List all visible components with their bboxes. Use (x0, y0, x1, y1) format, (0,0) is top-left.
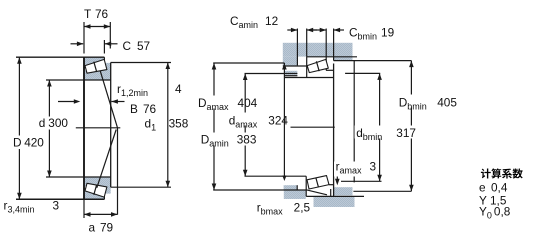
pressure line from bottom roller to apex a (97, 130, 116, 188)
svg-text:d: d (39, 116, 46, 130)
bearing back (left) face (83, 57, 85, 200)
housing recess sliver right of cup (334, 57, 353, 61)
housing shoulder block (283, 57, 298, 66)
tapered roller top (85, 59, 107, 73)
bore bottom line + d extension (46, 176, 111, 178)
label r amax 3 (334, 162, 376, 177)
housing spigot line (damax ext top) (245, 73, 298, 75)
cup bottom raceway line (83, 189, 104, 196)
cage line through bottom roller (94, 185, 97, 195)
svg-text:76: 76 (143, 102, 157, 116)
shaft spigot strip bottom (d bmin side) (284, 185, 298, 190)
dimension T: extension lines (83, 22, 85, 54)
calculation-factors table heading 计算系数 (481, 168, 523, 178)
pressure line from top roller to apex a (100, 71, 117, 128)
label d 300 (38, 117, 71, 130)
shaft section block bottom-left (284, 190, 306, 199)
outer ring (cup) bottom section (84, 189, 104, 199)
dimension Dbmin: line with arrows (410, 61, 412, 192)
cup bottom front face (right figure) (330, 189, 332, 196)
dimension dbmin: line with arrows (379, 73, 381, 181)
bearing centre axis line (76, 127, 121, 129)
cage line through top roller (94, 62, 97, 72)
bearing bottom edge (right figure) (306, 195, 364, 197)
bearing top edge + D extension line (16, 56, 104, 58)
svg-text:D: D (13, 136, 22, 150)
label Dbmin 405 (397, 95, 459, 108)
svg-text:B: B (130, 102, 138, 116)
cup top front face (103, 57, 105, 61)
label Damax 404 (196, 96, 256, 109)
shaft line bottom (Damax ext bottom) (213, 189, 306, 191)
cage line bottom (right figure) (316, 178, 319, 187)
housing spigot strip (Da min) (284, 71, 297, 75)
svg-text:e: e (479, 181, 486, 195)
roller bottom (right figure) (307, 176, 329, 189)
cup bottom raceway (right figure) (306, 190, 327, 195)
axis line (right figure) (291, 126, 335, 128)
cup top raceway (right figure) (307, 60, 327, 67)
cup top raceway line (83, 61, 104, 68)
dimension d1: dimension line with arrows (167, 63, 169, 188)
housing shoulder bore line (283, 65, 307, 67)
label damax 324 (227, 113, 287, 126)
label D 420 (11, 136, 45, 150)
dimension C: left arrow (71, 43, 84, 45)
cone front face full line (right figure) (333, 64, 335, 198)
bearing bottom back face (right figure) (305, 176, 307, 196)
svg-text:57: 57 (137, 39, 150, 53)
label Damin 383 (199, 133, 255, 146)
rib bottom edge line (right figure) (329, 184, 334, 186)
shaft line bottom right (Dbmin ext bottom) (353, 190, 411, 192)
outer ring (cup) top section (84, 58, 104, 68)
tapered roller bottom (85, 183, 107, 197)
dimension a: left extension line (83, 199, 85, 218)
dimension C: extension line (103, 40, 105, 54)
seat line bottom (right figure) (245, 175, 307, 177)
svg-text:T: T (84, 7, 91, 21)
svg-text:79: 79 (100, 221, 113, 235)
dimension damax: line with arrows (244, 74, 246, 177)
shaft step vertical bottom (296, 185, 298, 190)
dimension a: dimension line with arrows (84, 213, 118, 215)
ramax leader arrow (336, 177, 338, 181)
roller top (right figure) (307, 59, 328, 72)
svg-text:420: 420 (24, 136, 44, 150)
dimension d: dimension line with arrows (48, 80, 50, 177)
inner ring (cone) top section (84, 63, 111, 80)
cone front (right) face (110, 63, 112, 188)
housing shoulder face vertical (296, 29, 298, 66)
dimension Damax: line with arrows (213, 63, 215, 190)
dimension T: dimension line with arrows (84, 26, 110, 28)
bearing bottom edge + D extension line (16, 198, 104, 200)
svg-text:a: a (89, 221, 96, 235)
housing bore line (307, 56, 357, 58)
cone large-end top line + d1 extension (111, 62, 171, 64)
spacer diameter line bottom (dbmin ext) (341, 180, 382, 182)
dimension Cbmin: arrows (313, 29, 327, 31)
shaft abutment block bottom-right (314, 197, 355, 207)
cup front face (right figure) (325, 57, 327, 71)
bearing back face (right figure) (306, 57, 308, 78)
svg-text:Y00,8: Y00,8 (479, 205, 511, 221)
dimension Camin: arrows (287, 29, 297, 31)
rib top edge (right figure) (326, 69, 334, 71)
cage line top (right figure) (316, 61, 319, 71)
bore top line + d extension (46, 79, 111, 81)
dimension C: right arrow (105, 43, 118, 45)
svg-text:300: 300 (48, 116, 68, 130)
housing spigot strip bottom edge (284, 75, 297, 77)
dimension Camin: right extension line / cup back face ext (306, 29, 308, 57)
cone large-end bottom line + d1 extension (111, 186, 171, 188)
spacer face extension vertical (353, 61, 355, 183)
spacer strip right (above shaft line) (334, 187, 353, 195)
dimension B: right arrow (111, 101, 124, 103)
dimension D: dimension line with arrows (18, 57, 20, 199)
svg-text:76: 76 (95, 7, 109, 21)
dimension B: left arrow (58, 101, 75, 103)
extension line from apex a down to a-dimension (117, 128, 119, 215)
housing shoulder diameter line (Damax ext) (213, 62, 284, 64)
cup bottom front face (103, 196, 105, 200)
spacer diameter line top (dbmin ext) (345, 72, 380, 74)
label dbmin 317 (355, 126, 419, 139)
svg-text:C: C (123, 39, 132, 53)
housing section (gray band) (283, 43, 353, 57)
dimension Damin: line with arrows (283, 63, 285, 177)
seat line top (right figure) (284, 77, 333, 79)
housing bore extension to Dbmin (334, 60, 412, 62)
dimension Cbmin: extension lines (325, 29, 327, 57)
svg-text:0,4: 0,4 (491, 181, 508, 195)
inner ring (cone) bottom section (84, 177, 111, 194)
